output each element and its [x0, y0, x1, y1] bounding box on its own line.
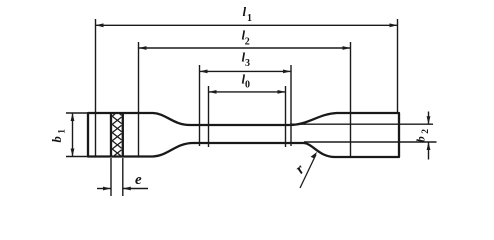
svg-text:2: 2: [421, 129, 431, 134]
dimension l1: [96, 19, 398, 157]
svg-text:e: e: [135, 172, 142, 188]
dimension b1: [66, 113, 93, 157]
grip mark line right: [122, 113, 124, 157]
svg-text:0: 0: [245, 79, 250, 90]
dimension l0: [209, 86, 286, 147]
dimension l2: [139, 42, 351, 157]
svg-text:1: 1: [58, 129, 68, 134]
svg-text:2: 2: [245, 37, 250, 48]
svg-text:b: b: [414, 136, 428, 142]
svg-text:1: 1: [247, 13, 252, 24]
dimension e: [97, 158, 148, 196]
leader r: [300, 155, 316, 189]
dimension l3: [200, 65, 292, 146]
grip mark line left: [110, 113, 112, 157]
svg-text:b: b: [50, 136, 64, 142]
svg-text:l: l: [243, 4, 247, 19]
dimension b2: [290, 112, 437, 160]
crosshatched clamping band: [112, 114, 121, 156]
svg-text:3: 3: [245, 58, 250, 69]
specimen outline (dumb-bell test piece): [88, 113, 399, 157]
